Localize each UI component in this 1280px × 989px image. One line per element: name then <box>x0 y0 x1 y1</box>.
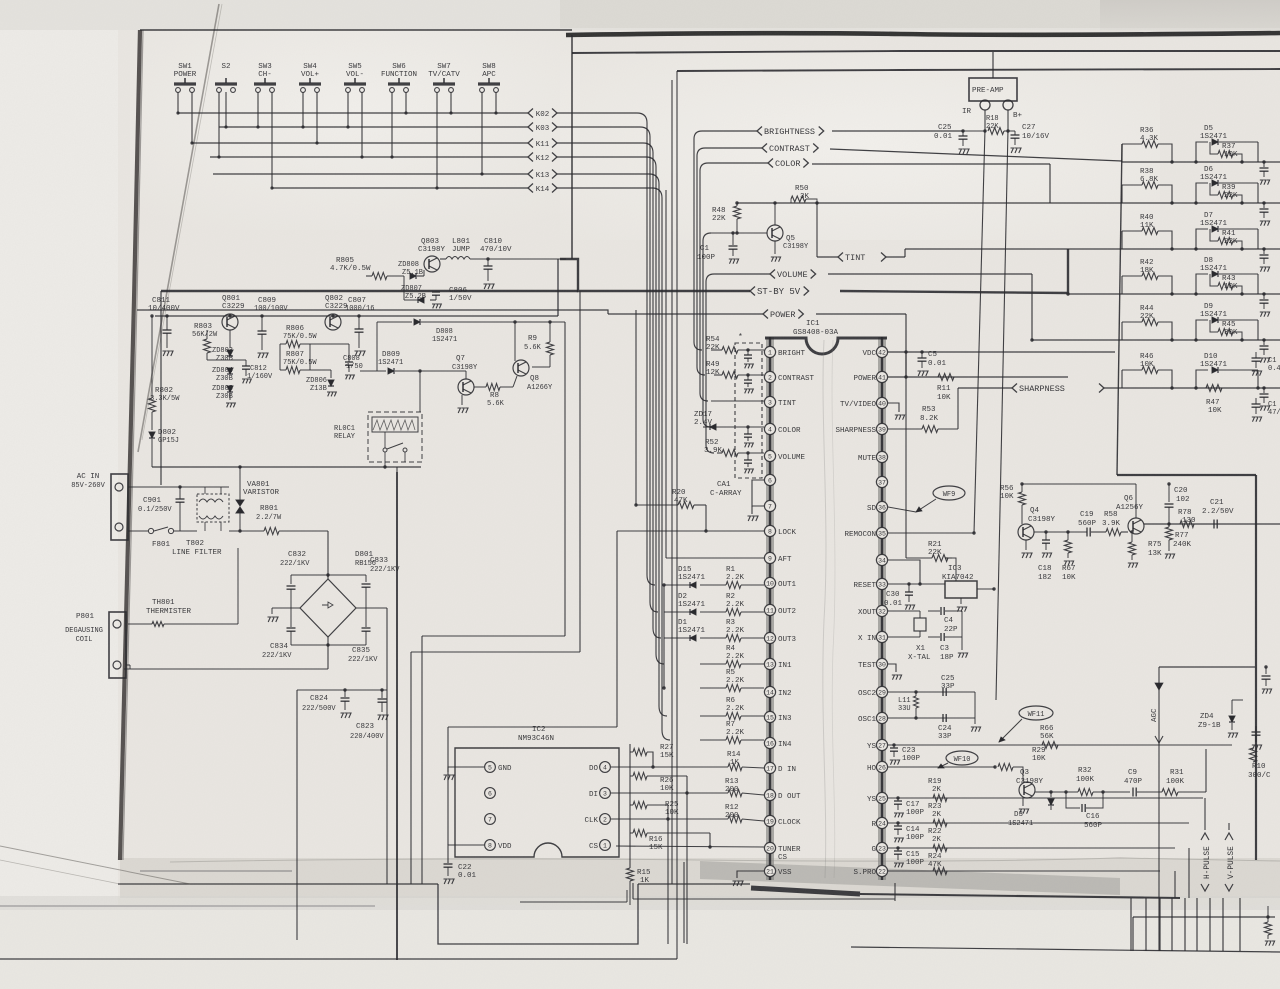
net label K03 <box>528 123 533 132</box>
IC1 pin 30 TEST <box>876 658 887 669</box>
wire pin28 OSC1 line <box>888 717 975 719</box>
page left edge heavy line <box>120 30 140 860</box>
wire pin34 stub <box>888 560 920 584</box>
wire collector rail <box>1022 483 1136 485</box>
wire SW6 pin to K02 <box>405 92 407 113</box>
wire TINT left vertical <box>816 203 818 257</box>
IC1 pin 41 POWER <box>876 371 887 382</box>
IC1 pin 4 COLOR <box>764 423 775 434</box>
wire bottom left corner diagonals <box>0 846 190 884</box>
net label K14 <box>528 184 533 193</box>
wire bottom right box step <box>1132 917 1134 951</box>
IC1 pin 5 VOLUME <box>764 450 775 461</box>
net label K02 <box>528 109 533 118</box>
wire bottom full line <box>0 958 677 960</box>
page fold crease diagonal <box>138 4 219 452</box>
wire PRE-AMP feed stub <box>992 52 994 78</box>
IC1 crease artifact <box>823 340 826 878</box>
wire P801 bottom <box>126 664 130 666</box>
net tag SHARPNESS <box>958 387 1012 389</box>
net AC line wire y467 <box>152 466 421 468</box>
wire pin31 X IN stub <box>888 636 920 638</box>
net tag POWER <box>608 313 763 315</box>
wire SW8 pin to K02 <box>495 92 497 113</box>
wire bottom thin frame under heavy segment <box>633 898 895 900</box>
net K03 bus wire <box>219 126 528 128</box>
wire row294 left segment <box>1068 293 1122 295</box>
net tag H-PULSE <box>1201 833 1209 840</box>
wire top right heavy corner <box>1117 474 1256 476</box>
net tag VOLUME <box>714 273 770 275</box>
wire bridge left to ground <box>272 607 300 609</box>
wire fan drops <box>1204 798 1206 830</box>
diode D3 symbol <box>1049 790 1052 793</box>
wire IC1 pin8 line <box>617 530 764 532</box>
IC1 pin 32 XOUT <box>876 605 887 616</box>
wire bottom right horizontals <box>1133 916 1275 918</box>
wire vertical x906 down <box>905 377 907 558</box>
wire pin22 S.PRO row <box>888 870 1160 872</box>
capacitor ladder row R46 bypass <box>1262 386 1265 389</box>
IC1 pin 8 LOCK <box>764 525 775 536</box>
wire bridge bottom rail <box>291 644 366 646</box>
wire pin41 POWER line <box>888 376 1068 378</box>
net tag TINT <box>838 253 843 262</box>
wire C824 rail <box>297 689 387 691</box>
IC1 pin 34 <box>876 554 887 565</box>
IC1 pin 22 S.PRO <box>876 865 887 876</box>
IC1 pin 37 <box>876 476 887 487</box>
second inner border line <box>677 69 1280 71</box>
oval WF11 <box>1019 706 1053 720</box>
IC2 pin 3 DI <box>600 788 611 799</box>
wire K-bus bundle to IC resistor ladder <box>557 113 655 585</box>
wire SW1 pin to K11 <box>191 92 193 143</box>
wire relay bottom connects <box>396 467 398 472</box>
wire ladder row R38 <box>1122 202 1280 204</box>
capacitor CA1-b <box>746 373 749 376</box>
wire pin40 TV/VIDEO ground stub <box>888 403 899 412</box>
wire ZD4 feed <box>1232 699 1243 701</box>
wire vertical from top border <box>571 35 573 259</box>
IC1 pin 9 AFT <box>764 552 775 563</box>
wire pin27 YS line <box>888 744 1232 746</box>
wire bundle relay to band <box>396 472 398 960</box>
IC1 pin 17 D IN <box>764 762 775 773</box>
IC2 pin 6 <box>485 788 496 799</box>
wire Q3 collector row <box>1035 791 1066 793</box>
wire Q803 collector line <box>440 258 446 260</box>
IC1 pin 28 OSC1 <box>876 712 887 723</box>
wire IC2 GND stub <box>448 767 455 772</box>
IC1 pin 13 IN1 <box>764 658 775 669</box>
wire bridge top rail <box>291 574 366 576</box>
scan shadow band top edge <box>170 858 1280 862</box>
wire pin23 G row <box>888 847 1175 849</box>
wire S2 pin to K03 <box>225 92 227 127</box>
capacitor array CA1 dashed box <box>735 343 762 478</box>
top border line left half <box>140 29 572 31</box>
wire rail step to Q803 line <box>557 259 559 316</box>
wire D809 junction to relay <box>418 369 421 372</box>
wire IC2 VDD to C22 <box>448 845 455 863</box>
IC1 pin 26 HO <box>876 761 887 772</box>
wire ladder row R46 <box>1122 387 1280 389</box>
IC1 pin 2 CONTRAST <box>764 371 775 382</box>
wire SW6 pin to K12 <box>391 92 393 157</box>
IC1 pin 31 X IN <box>876 631 887 642</box>
wire Q5 base line <box>711 232 767 234</box>
wire pin24 R row <box>888 822 1189 824</box>
wire ladder row R40 <box>1122 248 1280 250</box>
wire pin30 TEST ground <box>888 664 896 672</box>
IC3 ground <box>960 598 962 604</box>
net label K11 <box>528 139 533 148</box>
wire bottom heavy segment <box>751 888 860 894</box>
wire feed vertical x630 <box>629 744 631 868</box>
capacitor ladder row R42 bypass <box>1262 292 1265 295</box>
wire R31 up <box>1205 749 1207 792</box>
capacitor ladder row R44 bypass <box>1262 338 1265 341</box>
wire pin3 TINT <box>711 400 764 402</box>
net tag ST-BY 5V heavy wire <box>560 259 750 291</box>
net label K12 <box>528 153 533 162</box>
net K11 bus wire <box>192 142 528 144</box>
wire bottom right verticals below band <box>1130 898 1132 951</box>
capacitor ladder row R38 bypass <box>1262 201 1265 204</box>
IC1 pin 29 OSC2 <box>876 686 887 697</box>
wire SW5 pin to K03 <box>347 92 349 127</box>
net K13 bus wire <box>213 173 528 175</box>
wire base network vertical <box>403 276 405 300</box>
wire ST-BY from left <box>161 290 578 292</box>
wire pin33 RESET line <box>888 583 945 585</box>
IC1 pin 21 VSS <box>764 865 775 876</box>
IC2 pin 7 <box>485 814 496 825</box>
main rail wire y316 <box>155 315 558 317</box>
relay contact <box>383 448 387 452</box>
capacitor CA1-a <box>746 348 749 351</box>
wire AFT vertical <box>665 190 667 558</box>
wire POWER tag feed from left <box>137 310 608 314</box>
wire bridge feed vertical <box>327 531 329 577</box>
wire SW4 pin to K03 <box>302 92 304 127</box>
wire R16 drop to CS line <box>709 833 711 847</box>
wire D15 junction vertical <box>663 585 665 688</box>
wire Q8 left vertical <box>514 322 516 361</box>
IC1 pin 38 MUTE <box>876 451 887 462</box>
wire SW7 pin to K14 <box>436 92 438 188</box>
oval WF10 <box>946 751 978 765</box>
capacitor CA1-c <box>746 425 749 428</box>
wire IC1 pin21 VSS ground <box>737 871 764 878</box>
wire osc right leg <box>974 692 976 718</box>
net tag CONTRAST <box>705 147 762 149</box>
resistor bottom right edge <box>1267 906 1269 922</box>
scan shadow band bottom <box>120 858 1280 898</box>
wire Q5 collector <box>774 203 776 225</box>
wire R806 nets <box>279 344 281 370</box>
IC1 pin 6 <box>764 474 775 485</box>
IC1 pin 3 TINT <box>764 396 775 407</box>
wire SW1 pin to K02 <box>177 92 179 113</box>
IC1 pin 12 OUT3 <box>764 632 775 643</box>
wire left riser x161 <box>160 291 162 485</box>
wire pin26 HO line <box>888 766 995 768</box>
wire L-drop x565 <box>564 322 566 636</box>
wire IR vertical <box>984 110 986 129</box>
wire SW3 pin to K03 <box>257 92 259 127</box>
wire VOLUME drop to ladder row5 <box>1031 274 1033 340</box>
wire COLOR to ladder row2 <box>1049 164 1051 203</box>
IC1 pin 19 CLOCK <box>764 815 775 826</box>
capacitor C832 <box>290 575 292 584</box>
wire R26 drop vertical <box>686 776 688 944</box>
wire bottom notch box <box>438 884 638 944</box>
wire vertical x684 band <box>683 862 685 943</box>
net K12 bus wire <box>210 156 528 158</box>
IC2 pin 2 CLK <box>600 814 611 825</box>
wire Q803 base feed <box>403 275 405 277</box>
IC2 pin 4 DO <box>600 762 611 773</box>
IC1 pin 11 OUT2 <box>764 604 775 615</box>
wire SW4 pin to K11 <box>316 92 318 143</box>
net K02 bus wire <box>178 112 528 114</box>
wire tag bundle verticals <box>694 131 702 350</box>
IC2 pin 8 VDD <box>485 840 496 851</box>
top dark band right half <box>566 33 1280 35</box>
wire IC3 to B+ vertical <box>977 588 994 590</box>
net tag V-PULSE <box>1225 833 1233 840</box>
wire SW7 pin to K02 <box>450 92 452 113</box>
wire AC top <box>128 486 197 488</box>
wire vertical feed to R20 <box>635 310 637 505</box>
IC1 pin 23 G <box>876 842 887 853</box>
IC1 pin 18 D OUT <box>764 789 775 800</box>
capacitor ladder row R36 bypass <box>1262 160 1265 163</box>
wire S2 pin to K12 <box>218 92 220 157</box>
wire long vertical x677 <box>676 71 678 959</box>
net label K13 <box>528 170 533 179</box>
IC1 pin 27 YS <box>876 739 887 750</box>
IC1 pin 14 IN2 <box>764 686 775 697</box>
wire TINT to row249 <box>904 249 906 257</box>
IC1 pin 7 <box>764 500 775 511</box>
wire D808 left drop <box>376 322 378 371</box>
wire Q3 emitter ground <box>1022 798 1024 806</box>
IC1 pin 35 REMOCON <box>876 527 887 538</box>
IC1 pin 39 SHARPNESS <box>876 423 887 434</box>
wire IC1 pin9 AFT line <box>666 557 764 559</box>
wire bridge bottom to P801 <box>327 645 329 669</box>
wire SW8 pin to K13 <box>481 92 483 174</box>
wire crystal right leg <box>961 611 963 645</box>
capacitor ladder row R40 bypass <box>1262 247 1265 250</box>
wire row203 long <box>737 202 1122 204</box>
wire pin35 REMOCON stub <box>888 532 974 534</box>
wire ladder row R36 <box>1122 161 1280 163</box>
wire IC1 pin20 TUNER CS line <box>616 846 764 847</box>
net tag BRIGHTNESS <box>702 130 757 132</box>
wire faint band lines <box>140 870 292 872</box>
wire pin36 SD stub <box>888 507 916 512</box>
wire L-drop x580 <box>579 291 581 652</box>
op-amp IC U1 IC1 GS8408-03A body <box>766 337 774 880</box>
IC1 pin 40 TV/VIDEO <box>876 397 887 408</box>
wire R25 drop vertical <box>667 805 669 944</box>
IC1 pin 15 IN3 <box>764 711 775 722</box>
IC1 pin 1 BRIGHT <box>764 346 775 357</box>
wire bridge right output <box>356 607 387 609</box>
wire row340 left extension <box>1032 339 1122 341</box>
IC1 pin 42 VDC <box>876 346 887 357</box>
IC1 pin 10 OUT1 <box>764 577 775 588</box>
wire SW3 pin to K14 <box>271 92 273 188</box>
wire ladder row R42 <box>1122 293 1280 295</box>
wire bottom band main line <box>118 883 438 885</box>
wire thermistor riser <box>237 548 239 624</box>
wire ladder row R44 <box>1122 339 1280 341</box>
IC2 pin 5 GND <box>485 762 496 773</box>
wire pin25 YS row <box>888 797 1203 799</box>
net tag COLOR <box>708 162 768 164</box>
IC1 pin 33 RESET <box>876 578 887 589</box>
wire pin29 OSC2 line <box>888 691 975 693</box>
wire B+ vertical <box>1007 110 1009 129</box>
IC1 pin 24 R <box>876 817 887 828</box>
IC1 pin 20 TUNER <box>764 842 775 853</box>
wire Q6 emitter line <box>1144 523 1280 525</box>
connector PRE-AMP <box>969 78 1017 101</box>
IC1 pin 16 IN4 <box>764 737 775 748</box>
net K14 bus wire <box>272 187 528 189</box>
wire ladder left rail <box>1117 144 1122 475</box>
wire long vertical x672 <box>671 80 673 884</box>
oval WF9 <box>933 486 965 500</box>
wire IC1 pin6 pin7 to ground <box>752 480 764 506</box>
IC1 pin 25 YS <box>876 792 887 803</box>
wire pin8 L-drop x617 <box>616 531 618 727</box>
IC1 pin 36 SD <box>876 501 887 512</box>
wire R21 into IC3 <box>948 558 956 581</box>
net AGC <box>1159 666 1255 668</box>
wire pin32 XOUT stub <box>888 610 920 612</box>
wire POWER to pin41 via vdc node <box>905 314 907 377</box>
inner top border line <box>572 51 1280 53</box>
IC2 pin 1 CS <box>600 840 611 851</box>
wire SW5 pin to K12 <box>361 92 363 157</box>
capacitor CA1-d <box>746 451 749 454</box>
capacitor bottom right edge b <box>1255 726 1257 731</box>
capacitor bottom right edge a <box>1265 667 1267 674</box>
wire relay feeds <box>384 452 386 467</box>
